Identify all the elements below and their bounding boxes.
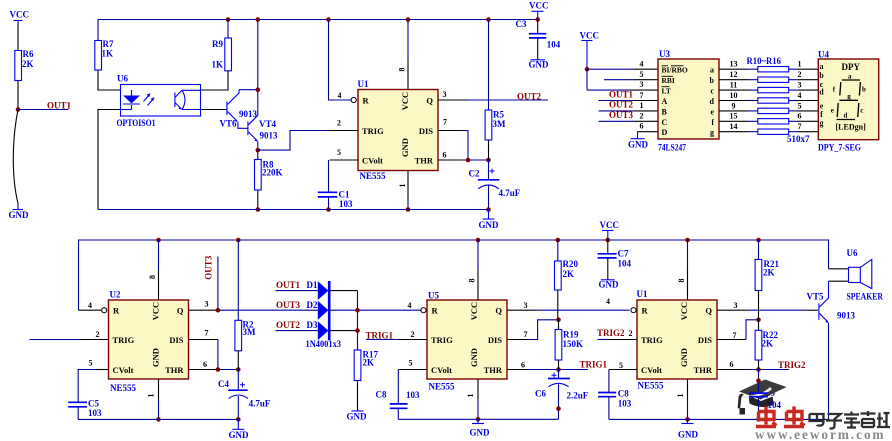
svg-text:U2: U2 — [110, 290, 121, 300]
capacitor C1 — [318, 160, 353, 210]
svg-text:TRIG: TRIG — [362, 126, 384, 136]
pin 4 R (U2) — [79, 301, 107, 313]
svg-text:5: 5 — [337, 148, 341, 157]
svg-text:3M: 3M — [243, 327, 257, 337]
svg-text:TRIG2: TRIG2 — [778, 360, 806, 370]
svg-text:6: 6 — [443, 150, 447, 159]
svg-text:LT: LT — [662, 87, 671, 96]
svg-text:6: 6 — [640, 122, 644, 131]
svg-text:2: 2 — [411, 330, 415, 339]
svg-text:DPY_7-SEG: DPY_7-SEG — [818, 142, 861, 152]
svg-text:4: 4 — [798, 91, 802, 100]
svg-text:THR: THR — [694, 365, 713, 375]
capacitor C3 104 — [516, 19, 561, 60]
svg-text:1: 1 — [640, 101, 644, 110]
pin 3 LT (U3) — [629, 80, 658, 90]
pin 3 Q (U2) — [189, 299, 318, 310]
svg-text:103: 103 — [618, 399, 632, 409]
power VCC (top-left) — [10, 10, 30, 25]
transistor VT6 9013 — [201, 90, 258, 129]
resistor R5 — [485, 20, 506, 161]
svg-text:d: d — [819, 88, 824, 97]
svg-text:R: R — [113, 306, 120, 316]
svg-text:GND: GND — [599, 280, 620, 290]
svg-text:www.eeworm.com: www.eeworm.com — [755, 427, 886, 441]
resistor R11 (row b) — [719, 70, 818, 82]
capacitor C8 103 (right block) — [598, 389, 632, 420]
ground (right block) — [678, 419, 699, 439]
svg-text:CVolt: CVolt — [113, 365, 134, 375]
svg-text:1: 1 — [676, 394, 685, 398]
svg-text:R5: R5 — [493, 109, 504, 119]
wire ground rail (right block) — [609, 418, 830, 420]
resistor R12 (row c) — [719, 81, 818, 93]
resistor R19 — [555, 320, 583, 370]
resistor R22 — [755, 320, 778, 370]
svg-text:4: 4 — [338, 91, 342, 100]
svg-text:GND: GND — [678, 430, 699, 440]
svg-text:150K: 150K — [563, 339, 584, 349]
svg-text:6: 6 — [521, 360, 525, 369]
svg-text:A: A — [662, 97, 668, 106]
svg-text:a: a — [710, 66, 714, 75]
svg-text:DIS: DIS — [488, 335, 502, 345]
7-segment digit drawing (inside U4) — [837, 80, 861, 120]
svg-text:D2: D2 — [307, 300, 318, 310]
svg-text:TRIG2: TRIG2 — [597, 328, 625, 338]
svg-text:TRIG: TRIG — [431, 335, 453, 345]
resistor network R10~R16 label — [747, 56, 782, 66]
svg-text:e: e — [831, 107, 834, 115]
svg-text:C1: C1 — [339, 189, 350, 199]
svg-text:104: 104 — [768, 400, 782, 410]
svg-text:GND: GND — [229, 430, 250, 440]
svg-text:C7: C7 — [618, 249, 629, 259]
svg-text:NE555: NE555 — [429, 382, 456, 392]
wire R7 to opto anode — [98, 70, 121, 90]
svg-text:d: d — [844, 111, 848, 119]
svg-text:9013: 9013 — [239, 109, 258, 119]
svg-text:C6: C6 — [535, 389, 546, 399]
speaker U6 — [829, 248, 884, 301]
pin 4 R (U5) — [408, 301, 427, 313]
svg-text:CVolt: CVolt — [431, 365, 452, 375]
op IC U1 NE555 (right) — [637, 289, 718, 391]
pin 2 TRIG (U5) — [398, 330, 427, 339]
power VCC (above C7) — [600, 220, 620, 240]
svg-text:GND: GND — [529, 60, 550, 70]
svg-text:4: 4 — [606, 297, 610, 306]
svg-text:c: c — [860, 107, 863, 115]
svg-text:4: 4 — [640, 60, 644, 69]
pin 1 B / net OUT2 (U3) — [599, 100, 659, 111]
svg-text:2: 2 — [640, 112, 644, 121]
svg-text:BI/RBO: BI/RBO — [662, 66, 688, 75]
svg-text:TRIG: TRIG — [641, 335, 663, 345]
svg-text:104: 104 — [547, 40, 561, 50]
svg-text:NE555: NE555 — [110, 383, 137, 393]
svg-text:15: 15 — [730, 112, 738, 121]
svg-text:TRIG: TRIG — [113, 335, 135, 345]
wire emitter node to TRIG — [258, 131, 329, 151]
svg-text:GND: GND — [679, 348, 689, 367]
node VT4 collector column — [257, 20, 259, 116]
op IC U5 NE555 — [427, 291, 507, 392]
svg-text:U1: U1 — [637, 289, 648, 299]
svg-text:OUT2: OUT2 — [517, 92, 542, 102]
wire VCC to R6 — [17, 24, 19, 51]
wire opto cathode to bottom rail — [98, 110, 121, 210]
pin 1 GND (U1 right) — [676, 379, 688, 419]
svg-text:C: C — [662, 118, 668, 127]
svg-text:6: 6 — [203, 360, 207, 369]
svg-text:5: 5 — [640, 70, 644, 79]
svg-text:7: 7 — [524, 330, 528, 339]
svg-text:f: f — [711, 118, 714, 127]
resistor R9 — [212, 20, 232, 71]
svg-text:GND: GND — [9, 210, 30, 220]
svg-text:CVolt: CVolt — [641, 365, 662, 375]
transistor VT4 9013 — [248, 115, 278, 150]
svg-text:GND: GND — [628, 139, 649, 149]
wire ground rail (U5 block) — [398, 418, 558, 420]
svg-text:2K: 2K — [762, 338, 774, 348]
wire VCC rail (bottom section) — [79, 240, 829, 310]
svg-text:U6: U6 — [117, 74, 128, 84]
diode D1 1N4001 — [307, 280, 358, 300]
net stub OUT3 (vertical) — [204, 255, 218, 310]
pin 1 GND (U5) — [466, 379, 478, 419]
ground (U2 block) — [229, 419, 250, 440]
decoder U3 74LS247 — [658, 49, 719, 152]
svg-text:DIS: DIS — [419, 126, 433, 136]
svg-text:THR: THR — [415, 155, 434, 165]
ground (under C7) — [599, 280, 620, 290]
svg-text:1: 1 — [466, 394, 475, 398]
pin 5 CVolt (U2) — [78, 359, 108, 403]
ground (U5 block) — [470, 419, 491, 437]
svg-text:R10~R16: R10~R16 — [747, 56, 782, 66]
svg-text:14: 14 — [730, 122, 738, 131]
ground (U3 pin D) — [628, 132, 649, 150]
svg-text:3: 3 — [640, 80, 644, 89]
svg-text:R9: R9 — [212, 39, 223, 49]
label 1N4001x3 — [306, 339, 342, 349]
svg-text:2K: 2K — [363, 357, 375, 367]
svg-text:VCC: VCC — [151, 302, 161, 320]
svg-text:C2: C2 — [469, 169, 480, 179]
svg-text:TRIG1: TRIG1 — [366, 330, 394, 340]
svg-text:VCC: VCC — [529, 1, 549, 11]
junction dots on top rail — [226, 17, 231, 22]
op IC U1 NE555 (top) — [358, 79, 439, 181]
svg-text:[LEDgn]: [LEDgn] — [836, 123, 867, 132]
pin 5 CVolt (U1 right) — [609, 361, 637, 392]
svg-text:NE555: NE555 — [360, 171, 387, 181]
svg-text:g: g — [820, 119, 824, 128]
svg-text:DIS: DIS — [698, 335, 712, 345]
svg-text:2: 2 — [337, 118, 341, 127]
svg-text:TRIG1: TRIG1 — [580, 359, 608, 369]
pin 6 THR (U1) — [438, 150, 489, 160]
svg-text:R: R — [363, 95, 370, 105]
pin 2 TRIG (U2) — [30, 330, 109, 340]
svg-text:b: b — [710, 76, 715, 85]
pin 2 C / net OUT3 (U3) — [599, 110, 659, 121]
wire ground rail (U2 block) — [78, 418, 238, 420]
svg-text:VCC: VCC — [400, 92, 410, 110]
resistor R8 — [255, 150, 283, 209]
svg-text:7: 7 — [205, 328, 209, 337]
svg-text:7: 7 — [443, 117, 447, 126]
svg-text:5: 5 — [89, 359, 93, 368]
svg-text:OUT1: OUT1 — [47, 100, 72, 110]
svg-text:5: 5 — [798, 101, 802, 110]
display U4 DPY_7-SEG — [818, 50, 879, 153]
svg-text:VCC: VCC — [580, 30, 600, 40]
svg-text:2.2uF: 2.2uF — [567, 390, 589, 400]
svg-text:C3: C3 — [516, 19, 527, 29]
value label 510x7 — [787, 134, 810, 144]
diode cathode bar (D1-D3) — [328, 281, 331, 340]
capacitor C6 2.2uF — [535, 370, 589, 420]
pin 2 TRIG / net TRIG2 (U1 right) — [597, 328, 637, 339]
power VCC (74LS247 block) — [580, 30, 600, 69]
svg-text:R6: R6 — [23, 49, 34, 59]
svg-text:Q: Q — [495, 306, 502, 316]
svg-text:GND: GND — [347, 412, 368, 422]
resistor R15 (row f) — [719, 112, 818, 124]
capacitor C7 104 — [598, 240, 632, 280]
svg-text:5: 5 — [409, 359, 413, 368]
wire OUT1 — [18, 109, 69, 111]
wire node to GND (curved) — [13, 110, 18, 204]
svg-text:5: 5 — [619, 361, 623, 370]
watermark graduation cap — [738, 380, 787, 415]
svg-text:7: 7 — [798, 122, 802, 131]
svg-text:DIS: DIS — [169, 335, 183, 345]
svg-text:OUT1: OUT1 — [609, 90, 634, 100]
svg-text:510x7: 510x7 — [787, 134, 810, 144]
svg-text:2: 2 — [798, 70, 802, 79]
svg-text:GND: GND — [151, 348, 161, 367]
svg-text:1: 1 — [147, 394, 156, 398]
svg-text:4: 4 — [408, 301, 412, 310]
pin 7 DIS (U2) — [189, 328, 218, 369]
svg-text:VCC: VCC — [10, 10, 30, 20]
pin 4 BI/RBO (U3) — [634, 60, 658, 70]
svg-text:GND: GND — [479, 220, 500, 230]
svg-text:C4: C4 — [218, 379, 229, 389]
resistor R6 — [15, 49, 34, 81]
wire R9 to opto collector — [201, 71, 229, 90]
power VCC (above C3) — [529, 1, 549, 20]
capacitor 104 (right block) — [749, 370, 782, 420]
pin 8 VCC (U1 right) — [677, 240, 688, 300]
svg-text:U3: U3 — [659, 49, 670, 59]
wire bottom rail (top section) — [98, 209, 489, 211]
svg-text:10: 10 — [730, 91, 738, 100]
pin 6 THR / net TRIG2 (U1 right) — [717, 360, 806, 370]
svg-text:R7: R7 — [103, 39, 114, 49]
op IC U2 NE555 — [109, 290, 189, 394]
capacitor C5 103 — [68, 398, 102, 419]
pin 5 CVolt (U1) — [330, 148, 359, 160]
pin 7 DIS (U1) — [438, 117, 468, 160]
node VT4 emitter — [255, 148, 260, 153]
capacitor C9 designator (hidden by watermark) — [764, 388, 775, 398]
svg-text:c: c — [710, 87, 714, 96]
ground (under C2) — [479, 210, 500, 231]
svg-text:1K: 1K — [102, 49, 114, 59]
ground (top-left) — [9, 204, 30, 221]
svg-text:2K: 2K — [763, 267, 775, 277]
svg-text:13: 13 — [730, 60, 738, 69]
capacitor C8 103 (U5 block) — [376, 390, 421, 420]
svg-text:U5: U5 — [428, 291, 439, 301]
svg-text:VCC: VCC — [469, 302, 479, 320]
svg-text:OUT3: OUT3 — [204, 255, 214, 280]
svg-text:12: 12 — [730, 70, 738, 79]
svg-text:e: e — [710, 107, 714, 116]
svg-text:1: 1 — [798, 60, 802, 69]
svg-text:VT6: VT6 — [220, 119, 238, 129]
wire VT6 collector to node — [239, 89, 258, 91]
watermark bug characters — [756, 407, 805, 427]
svg-text:3: 3 — [524, 301, 528, 310]
svg-text:OUT3: OUT3 — [609, 110, 634, 120]
svg-text:OUT2: OUT2 — [276, 320, 301, 330]
pin 4 R (U1 right) — [606, 297, 636, 313]
svg-text:VCC: VCC — [600, 220, 620, 230]
label [LEDgn] — [836, 123, 867, 132]
svg-text:OPTOISO1: OPTOISO1 — [117, 118, 156, 128]
resistor R16 (row g) — [719, 122, 818, 134]
svg-text:103: 103 — [88, 408, 102, 418]
svg-text:SPEAKER: SPEAKER — [847, 291, 884, 301]
svg-text:2: 2 — [629, 329, 633, 338]
resistor R20 — [555, 240, 579, 320]
svg-text:a: a — [820, 62, 824, 71]
svg-text:1: 1 — [398, 184, 407, 188]
svg-text:8: 8 — [677, 279, 686, 283]
watermark chinese site name — [810, 411, 891, 429]
svg-text:4.7uF: 4.7uF — [249, 398, 271, 408]
diode D3 1N4001 — [307, 320, 358, 340]
pin 7 DIS (U5) — [507, 320, 559, 340]
svg-text:8: 8 — [468, 279, 477, 283]
pin 5 CVolt (U5) — [398, 359, 427, 404]
svg-text:7: 7 — [640, 91, 644, 100]
svg-text:D1: D1 — [307, 280, 318, 290]
resistor R21 — [755, 240, 779, 320]
svg-text:C8: C8 — [376, 390, 387, 400]
svg-text:6: 6 — [798, 112, 802, 121]
resistor R17 — [354, 349, 378, 411]
optocoupler U6 OPTOISO1 — [117, 74, 201, 129]
svg-text:RBI: RBI — [662, 76, 675, 85]
svg-text:D3: D3 — [307, 320, 318, 330]
wire R6 to node — [17, 81, 19, 110]
svg-text:2: 2 — [96, 330, 100, 339]
svg-text:6: 6 — [730, 360, 734, 369]
resistor R14 (row e) — [719, 101, 818, 113]
svg-text:C5: C5 — [88, 398, 99, 408]
wire top VCC rail — [98, 19, 538, 21]
pin 1 GND (U1) — [398, 171, 408, 210]
svg-text:g: g — [847, 92, 851, 100]
net label OUT1 / wire to D1 — [276, 280, 318, 291]
svg-text:1N4001x3: 1N4001x3 — [306, 339, 342, 349]
svg-text:1K: 1K — [212, 60, 224, 70]
svg-text:8: 8 — [398, 68, 407, 72]
pin 7 A / net OUT1 (U3) — [599, 90, 659, 101]
svg-text:OUT3: OUT3 — [276, 300, 301, 310]
pin 8 VCC (U2) — [148, 240, 159, 300]
net label OUT2 / wire to D3 — [276, 320, 318, 331]
resistor R10 (row a) — [719, 60, 818, 72]
svg-text:DPY: DPY — [842, 62, 861, 72]
svg-text:104: 104 — [618, 259, 632, 269]
diode D2 1N4001 — [307, 300, 421, 320]
svg-text:CVolt: CVolt — [362, 155, 383, 165]
resistor R13 (row d) — [719, 91, 818, 103]
svg-text:2K: 2K — [22, 59, 34, 69]
svg-text:OUT2: OUT2 — [609, 100, 634, 110]
svg-text:d: d — [710, 97, 715, 106]
pin 6 D (U3) — [638, 122, 659, 132]
pin 5 RBI (U3) — [604, 70, 658, 80]
pin 8 VCC (U5) — [468, 240, 479, 300]
svg-text:NE555: NE555 — [638, 381, 665, 391]
pin 3 Q / net OUT2 (U1) — [438, 90, 548, 102]
svg-text:3: 3 — [443, 90, 447, 99]
svg-text:R20: R20 — [563, 259, 579, 269]
node VCC-U3 — [585, 67, 590, 72]
junction dots on bottom VCC rail — [156, 238, 161, 243]
svg-text:74LS247: 74LS247 — [658, 142, 686, 152]
svg-text:B: B — [662, 107, 668, 116]
transistor VT5 9013 — [807, 281, 856, 419]
svg-text:3: 3 — [798, 81, 802, 90]
pin 4 R (U1) — [329, 20, 357, 103]
svg-text:THR: THR — [484, 365, 503, 375]
svg-text:103: 103 — [339, 199, 353, 209]
svg-text:4: 4 — [88, 301, 92, 310]
wire VCC to BI/RBO and LT — [587, 69, 634, 90]
svg-text:D: D — [662, 128, 668, 137]
svg-text:3: 3 — [734, 301, 738, 310]
node OUT1 — [16, 107, 21, 112]
watermark url — [755, 427, 886, 441]
svg-text:VT5: VT5 — [807, 292, 825, 302]
wire diode common column — [357, 291, 359, 350]
svg-text:GND: GND — [469, 348, 479, 367]
svg-text:Q: Q — [177, 306, 184, 316]
svg-text:a: a — [848, 72, 852, 80]
svg-text:b: b — [862, 86, 866, 94]
svg-text:R: R — [642, 306, 649, 316]
svg-text:7: 7 — [733, 331, 737, 340]
svg-text:GND: GND — [470, 428, 491, 438]
svg-text:9013: 9013 — [837, 311, 856, 321]
pin 2 TRIG (U1) — [329, 118, 358, 130]
pin 7 DIS (U1 right) — [717, 320, 759, 340]
svg-text:VCC: VCC — [679, 302, 689, 320]
svg-text:Q: Q — [426, 95, 433, 105]
svg-text:11: 11 — [730, 81, 738, 90]
svg-text:C8: C8 — [618, 389, 629, 399]
